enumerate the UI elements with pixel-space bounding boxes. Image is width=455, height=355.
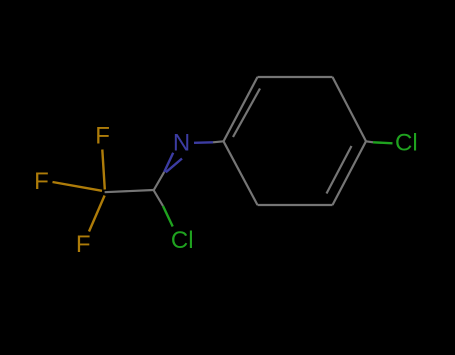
benzene ring edge L-TL [224, 77, 258, 141]
bond C-Cl gray half [154, 190, 164, 206]
bond ring to right Cl green half [373, 142, 393, 143]
imine N=C main line blue half [164, 153, 173, 172]
svg-text:Cl: Cl [171, 227, 194, 254]
bond C-F1 olive [102, 150, 105, 190]
bond C-Cl green half [163, 206, 173, 227]
imine N=C main line gray half [154, 172, 165, 191]
svg-text:Cl: Cl [395, 129, 418, 156]
bond C-F3 olive [89, 196, 105, 232]
svg-text:F: F [76, 231, 91, 258]
svg-text:N: N [173, 130, 190, 157]
bond ring to right Cl gray half [366, 141, 373, 142]
benzene ring edge BL-L [224, 141, 258, 205]
benzene ring inner double bond line on edge L-TL [233, 89, 260, 138]
svg-text:F: F [95, 122, 110, 149]
bond N to ring gray half [213, 141, 224, 142]
benzene ring edge R-BR [333, 141, 367, 205]
benzene ring edge TL-TR top [258, 76, 333, 78]
benzene ring edge TR-R [333, 77, 367, 141]
benzene ring inner double bond line on edge R-BR [327, 146, 352, 194]
bond C-C between CF3 carbon and imidoyl carbon gray [105, 190, 154, 192]
bond C-F2 olive [53, 182, 103, 191]
svg-text:F: F [34, 168, 49, 195]
bond N to ring blue half [194, 141, 213, 144]
benzene ring edge BR-BL bottom [258, 204, 333, 206]
imine N=C second line blue [166, 159, 182, 173]
